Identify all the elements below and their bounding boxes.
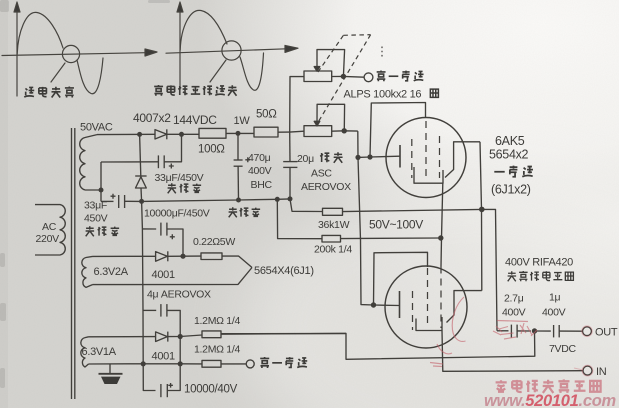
svg-text:7VDC: 7VDC [549,343,577,355]
waveform 2 positive half-cycle [180,10,227,50]
node dot tube2 grid [371,302,376,307]
node dot pot2 right [342,128,347,133]
svg-text:470μ: 470μ [248,152,271,164]
svg-text:1.2MΩ 1/4: 1.2MΩ 1/4 [194,344,240,356]
waveform 1 zero-crossing circle [62,45,79,62]
ground bar [99,373,123,375]
svg-text:5654X4(6J1): 5654X4(6J1) [254,265,314,277]
node 144VDC dot [179,132,184,137]
node dot 4u cap junction [178,334,183,339]
plus mark of 10000/40V [168,383,173,388]
output coupling row [497,330,509,332]
svg-text:IN: IN [596,366,607,378]
resistor 100ohm [199,128,254,138]
tube V1 cathode bar [399,145,401,168]
transformer secondary 6.3V1A winding [81,337,89,367]
wire: drop from rectifier input node [140,134,141,176]
dotted mark near gang [381,47,383,58]
svg-text:33μF/450V: 33μF/450V [155,172,204,184]
svg-text:400V: 400V [502,307,526,319]
bottom rail [142,199,290,202]
ground stem [109,364,111,374]
svg-text:50VAC: 50VAC [80,122,113,134]
svg-text:4001: 4001 [152,269,175,281]
plus mark of 33uF [111,194,116,199]
waveform 1 pointer line [51,63,65,82]
svg-text:36k1W: 36k1W [318,219,350,231]
label 一声道 [494,166,533,177]
capacitor 10000/40V [161,364,180,397]
wire: tube V2 cathode to IN line [442,331,583,372]
svg-text:1μ: 1μ [549,292,561,304]
wire: tube1 cathode/grid row [358,156,400,157]
svg-text:ASC: ASC [311,168,332,180]
watermark 家电维修资料网 [496,379,601,393]
svg-text:400V: 400V [248,165,272,177]
plus mark of 470u [245,157,250,162]
node dots on 6.3V1A bottom line [141,361,183,366]
waveform 1 negative half-cycle [77,58,103,94]
bottom rail left segment [101,200,114,202]
capacitor 10000uF/450V symbol [142,223,183,257]
wire: anode bus vertical [480,142,482,291]
resistor 36k 1W [323,208,482,215]
svg-text:BHC: BHC [251,179,273,191]
node dot winding bottom [99,188,104,193]
potentiometer VR1 body [304,71,332,82]
wire: heater supply vertical from bottom rail [142,201,156,390]
tube V2 anode [447,291,482,323]
transformer core [72,128,75,399]
diode D2 4007 (vertical) [135,176,146,201]
diode D4 4001 [156,332,181,342]
svg-text:4μ AEROVOX: 4μ AEROVOX [147,289,211,301]
heater banner 6.3V1A bottom line [89,363,203,365]
potentiometer VR2 wiper arrow [314,121,320,126]
waveform 2 pointer line [210,60,226,82]
svg-text:4007x2: 4007x2 [133,111,171,125]
resistor 1.2M 1/4 (lower) [202,360,246,367]
resistor 1.2M 1/4 (upper) [180,331,346,338]
potentiometer VR2 rheostat loop [317,104,345,128]
svg-text:6.3V2A: 6.3V2A [94,266,129,278]
wire: node to pot1 left terminal [290,77,304,133]
tube V2 cathode bar [399,291,401,318]
capacitor 33uF/450V (doubler) [101,155,164,168]
svg-text:OUT: OUT [595,327,618,339]
svg-text:220V: 220V [36,233,60,245]
label: 过零失真 [24,86,74,97]
svg-text:400V RIFA420: 400V RIFA420 [505,257,573,269]
potentiometer VR1 wiper arrow [314,67,320,72]
potentiometer VR2 body [304,126,332,137]
label 型 [430,89,438,97]
node dot between 100ohm and 50ohm [236,131,241,136]
waveform 2 zero-crossing circle [222,41,241,60]
heater banner 6.3V2A top line [93,255,156,257]
36k feed jog from rail [290,199,323,212]
svg-text:5654x2: 5654x2 [489,148,529,162]
plus mark of 10000uF [170,234,175,239]
wire: heater bias 7VDC line [221,331,535,359]
label 或广州本尼克 [508,271,574,281]
svg-text:20μ: 20μ [297,153,314,165]
svg-text:50V~100V: 50V~100V [369,218,423,232]
svg-text:6AK5: 6AK5 [495,134,525,148]
heater banner 6.3V1A top line [89,336,156,338]
svg-text:1W: 1W [234,115,251,127]
terminal circle IN [583,366,592,375]
node dot 200k to tube2 grid [438,235,443,240]
wire: left vertical to bottom rail [100,162,102,201]
node dot at rectifier input [137,132,142,137]
svg-text:(6J1x2): (6J1x2) [491,183,531,197]
wire: top rail 50VAC to rectifier [97,133,155,135]
ground body [101,377,121,384]
tube V2 top-cap loop [374,252,428,305]
capacitor 1u 400V [535,325,583,337]
plus mark of 33uF/450V [169,164,174,169]
wire: anode node to output coupling [482,209,497,330]
transformer secondary 50VAC winding [80,135,101,190]
tube V1 grids (dashed) [412,121,440,178]
wire pot2 right to signal node [332,130,358,132]
svg-text:144VDC: 144VDC [173,113,217,127]
wire: tube V2 grid row [374,304,400,307]
svg-text:100Ω: 100Ω [198,144,225,156]
resistor 50ohm [254,127,290,137]
svg-text:50Ω: 50Ω [256,109,277,121]
waveform 1 horizontal axis [2,49,157,56]
wire: signal vertical down to tube2 grid [358,131,374,305]
node dot pot1 right [341,74,346,79]
wire: drop from 144VDC node to doubler cap [164,134,181,162]
svg-text:AC: AC [42,221,57,233]
svg-text:1.2MΩ 1/4: 1.2MΩ 1/4 [194,315,240,327]
wire: 1.2M junction vertical [179,337,181,364]
potentiometer VR1 rheostat loop [317,50,345,75]
heater banner 6.3V2A bottom line to arrow tip [93,268,253,285]
tube V1 heater U [414,167,443,183]
svg-text:10000μF/450V: 10000μF/450V [144,208,210,220]
svg-text:2.7μ: 2.7μ [504,293,524,305]
wire pot1 right to channel terminal [332,75,364,78]
svg-text:0.22Ω5W: 0.22Ω5W [193,236,235,248]
wire: tube1 top-cap loop [370,103,426,158]
resistor 0.22ohm 5W [183,253,252,268]
tube V2 envelope [385,266,467,348]
diode D3 4001 [156,251,183,261]
wire: tube V1 cathode down to 200k node and tube2 grid cap [441,183,443,266]
red pen marks [430,297,593,376]
svg-text:400V: 400V [542,307,566,319]
tube V1 envelope [386,118,466,198]
waveform 2 horizontal axis [166,45,298,53]
capacitor 2.7u 400V [511,325,531,338]
200k feed jog from rail [277,199,322,238]
bottom rail node dots [139,196,292,204]
ganged-pot dashed link [318,35,371,122]
tube V1 anode [445,142,480,178]
terminal circle other channel (bottom) [246,360,254,368]
svg-text:33μF: 33μF [84,200,107,212]
svg-text:200k 1/4: 200k 1/4 [314,244,352,256]
svg-text:10000/40V: 10000/40V [184,384,238,396]
waveform 2 vertical axis [177,2,183,90]
capacitor 33uF 450V [119,195,142,208]
capacitor 20u ASC branch [283,132,297,199]
capacitor 470u 400V branch [234,133,243,200]
tube V2 grids (dashed) [413,267,442,331]
label 飞利浦 (33uF/450V) [168,183,202,193]
tube V2 heater U [416,317,442,331]
label 飞利浦 (33uF) [86,226,120,236]
waveform 1 vertical axis [14,2,20,96]
node dots on tube1 grid row [355,154,372,160]
resistor 200k 1/4 [322,235,441,242]
svg-text:6.3V1A: 6.3V1A [82,346,117,358]
svg-text:www.520101.com: www.520101.com [484,392,616,408]
waveform 1 positive half-cycle [17,12,63,54]
terminal circle other channel (top) [364,73,373,82]
capacitor 4u AEROVOX [143,304,180,336]
node dot doubler cap to heater line [180,254,185,259]
node dot anodes [479,207,485,213]
svg-text:ALPS 100kx2 16: ALPS 100kx2 16 [344,89,422,101]
label 飞利浦 (10000uF) [229,207,261,217]
wire: node to pot2 left terminal [290,130,304,133]
label 另一声道 (top) [377,70,424,81]
diode D1 4007 [155,129,199,139]
label: 高电位平滑过渡 [154,85,237,96]
label 另一声道 (bottom) [260,357,307,368]
terminal circle OUT [583,327,592,336]
svg-text:450V: 450V [84,213,108,225]
waveform 2 negative half-cycle [240,53,264,90]
svg-text:AEROVOX: AEROVOX [301,181,351,193]
node dot between output caps [532,328,537,333]
svg-text:4001: 4001 [152,351,175,363]
transformer secondary 6.3V2A winding [82,256,93,287]
transformer primary winding AC220V [35,205,65,255]
